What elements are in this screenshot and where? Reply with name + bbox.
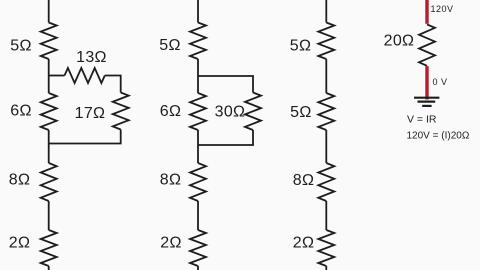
wire 6Ω through node B to 8Ω circuit 1	[48, 130, 50, 163]
svg-text:2Ω: 2Ω	[9, 235, 30, 252]
wire between 5Ω resistors circuit 3	[325, 59, 327, 93]
wire top feed circuit 3	[325, 0, 327, 23]
resistor R13 5Ω circuit 3	[318, 93, 334, 130]
wire 5Ω to 8Ω circuit 3	[325, 130, 327, 163]
resistor R12 5Ω circuit 3	[318, 23, 334, 60]
svg-text:5Ω: 5Ω	[290, 38, 311, 55]
wire between 5Ω and node A circuit 1	[48, 59, 50, 76]
resistor R10 8Ω circuit 2	[190, 163, 206, 201]
wire 13Ω to right branch corner	[105, 76, 121, 93]
wire 8Ω to 2Ω circuit 1	[48, 201, 50, 230]
resistor R1 5Ω circuit 1	[41, 23, 57, 60]
svg-text:V = IR: V = IR	[407, 114, 437, 126]
wire bottom stub circuit 3	[325, 266, 327, 270]
resistor R4 6Ω circuit 1	[41, 93, 57, 130]
resistor R2 13Ω circuit 1	[65, 68, 105, 83]
resistor R11 2Ω circuit 2	[190, 230, 206, 266]
svg-text:13Ω: 13Ω	[76, 49, 107, 66]
svg-text:120V: 120V	[431, 4, 454, 14]
svg-text:5Ω: 5Ω	[10, 38, 31, 55]
resistor R14 8Ω circuit 3	[318, 163, 334, 201]
wire node A to 13Ω branch	[49, 75, 65, 77]
wire 120V red feed circuit 4	[425, 0, 428, 24]
wire node A to 6Ω circuit 1	[48, 76, 50, 94]
svg-text:8Ω: 8Ω	[9, 172, 30, 189]
svg-text:6Ω: 6Ω	[10, 103, 31, 120]
svg-text:2Ω: 2Ω	[293, 235, 314, 252]
svg-text:6Ω: 6Ω	[160, 103, 181, 120]
wire top feed circuit 2	[197, 0, 199, 23]
resistor R3 17Ω circuit 1	[113, 93, 129, 130]
wire 6Ω through node D to 8Ω circuit 2	[197, 130, 199, 163]
wire bottom stub circuit 1	[48, 266, 50, 270]
wire 8Ω to 2Ω circuit 2	[197, 201, 199, 230]
resistor R7 5Ω circuit 2	[190, 23, 206, 60]
wire 0V red lead circuit 4	[425, 66, 428, 99]
svg-text:5Ω: 5Ω	[159, 37, 180, 54]
svg-text:8Ω: 8Ω	[293, 172, 314, 189]
svg-text:20Ω: 20Ω	[384, 33, 415, 50]
wire node C to 6Ω circuit 2	[197, 76, 199, 93]
wire node C to 30Ω branch top	[198, 76, 253, 93]
resistor R9 6Ω circuit 2	[190, 93, 206, 130]
wire bottom stub circuit 2	[197, 266, 199, 270]
svg-text:2Ω: 2Ω	[160, 235, 181, 252]
svg-text:120V = (I)20Ω: 120V = (I)20Ω	[407, 131, 470, 142]
svg-text:8Ω: 8Ω	[160, 172, 181, 189]
svg-text:5Ω: 5Ω	[290, 104, 311, 121]
resistor R15 2Ω circuit 3	[318, 230, 334, 266]
svg-text:0 V: 0 V	[433, 77, 448, 87]
resistor R5 8Ω circuit 1	[41, 163, 57, 201]
ground symbol	[414, 98, 439, 106]
svg-text:30Ω: 30Ω	[215, 104, 246, 121]
wire top feed circuit 1	[48, 0, 50, 23]
wire 30Ω bottom to node D	[198, 130, 253, 145]
resistor R16 20Ω circuit 4	[419, 24, 435, 65]
wire 17Ω down to node B	[49, 130, 121, 144]
svg-text:17Ω: 17Ω	[75, 105, 106, 122]
resistor R8 30Ω circuit 2	[245, 93, 261, 131]
resistor R6 2Ω circuit 1	[41, 230, 57, 266]
wire 5Ω to node C circuit 2	[197, 59, 199, 76]
wire 8Ω to 2Ω circuit 3	[325, 201, 327, 230]
